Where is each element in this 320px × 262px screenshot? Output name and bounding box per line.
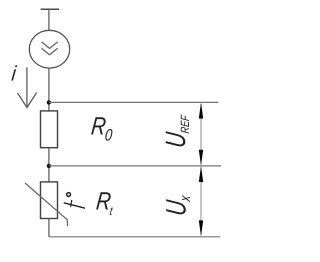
label Rt — [95, 187, 116, 219]
wire Rt to bottom rail — [48, 219, 50, 237]
current direction arrow i — [18, 67, 37, 107]
svg-text:R0: R0 — [89, 111, 115, 145]
svg-text:Ux: Ux — [162, 192, 194, 217]
label i — [10, 62, 17, 85]
dimension arrow U_x — [199, 166, 203, 236]
wire node1 to right rail — [49, 101, 219, 103]
wire node2 to right rail — [49, 165, 221, 167]
dimension arrow U_REF — [199, 103, 203, 166]
wire R0 to node2 — [48, 148, 50, 182]
wire current source to R0 — [48, 68, 50, 111]
svg-text:Rt: Rt — [95, 187, 116, 219]
svg-text:UREF: UREF — [161, 112, 192, 149]
wire terminal to current source — [48, 9, 50, 30]
bottom wire to right — [49, 236, 220, 238]
label U_x — [162, 192, 194, 217]
node 2 junction — [47, 164, 51, 168]
svg-text:i: i — [10, 62, 17, 85]
thermistor t-degree mark — [64, 193, 85, 209]
node 1 junction — [47, 100, 51, 104]
label U_REF — [161, 112, 192, 149]
current source — [29, 30, 69, 68]
resistor R0 — [41, 111, 58, 148]
power terminal bar — [41, 8, 59, 10]
label R0 — [89, 111, 115, 145]
thermistor Rt — [25, 182, 68, 226]
